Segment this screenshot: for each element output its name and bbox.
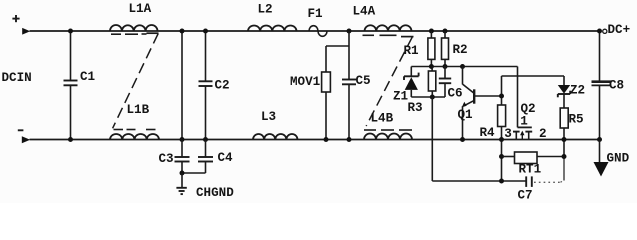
svg-text:C5: C5 bbox=[356, 74, 371, 88]
svg-text:GND: GND bbox=[607, 152, 630, 166]
svg-text:L1A: L1A bbox=[129, 2, 152, 16]
svg-text:L4B: L4B bbox=[371, 112, 394, 126]
svg-text:3: 3 bbox=[504, 127, 512, 141]
svg-text:C4: C4 bbox=[218, 151, 234, 165]
svg-text:C1: C1 bbox=[80, 70, 96, 84]
svg-text:Q1: Q1 bbox=[458, 108, 474, 122]
svg-text:R5: R5 bbox=[569, 113, 584, 127]
svg-text:R1: R1 bbox=[404, 44, 420, 58]
svg-text:C2: C2 bbox=[215, 79, 230, 93]
svg-text:1: 1 bbox=[520, 115, 528, 129]
svg-text:L4A: L4A bbox=[353, 5, 376, 19]
svg-text:DCIN: DCIN bbox=[2, 71, 32, 85]
svg-text:Z2: Z2 bbox=[570, 84, 585, 98]
svg-text:R2: R2 bbox=[453, 43, 468, 57]
svg-text:L3: L3 bbox=[261, 110, 276, 124]
svg-text:RT1: RT1 bbox=[519, 163, 542, 177]
svg-text:R4: R4 bbox=[480, 126, 496, 140]
svg-text:C3: C3 bbox=[159, 152, 174, 166]
svg-text:L2: L2 bbox=[258, 3, 273, 17]
svg-text:DC+: DC+ bbox=[608, 23, 631, 37]
svg-text:L1B: L1B bbox=[127, 103, 150, 117]
svg-text:C8: C8 bbox=[609, 79, 624, 93]
svg-text:R3: R3 bbox=[408, 101, 423, 115]
svg-text:C6: C6 bbox=[448, 87, 463, 101]
svg-text:Z1: Z1 bbox=[393, 90, 409, 104]
svg-text:2: 2 bbox=[539, 127, 547, 141]
svg-text:CHGND: CHGND bbox=[196, 186, 234, 200]
svg-text:MOV1: MOV1 bbox=[290, 75, 321, 89]
svg-text:C7: C7 bbox=[518, 189, 533, 203]
svg-text:F1: F1 bbox=[308, 7, 324, 21]
